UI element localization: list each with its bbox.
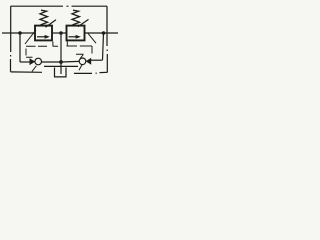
pilot dash line from V1 [26,42,58,58]
pilot dash line from V2 [67,41,93,58]
adjust arrow V1 [46,20,57,27]
wire B branch down [103,33,104,60]
enclosure bottom chain line [11,72,108,74]
pilot diagonal V2 [88,33,97,43]
check valve CV1 seat [30,58,36,65]
node center junction dot [59,31,63,35]
relief valve V2 body [67,26,85,41]
relief valve V2 flow arrow [69,36,77,38]
wire A branch down [19,33,21,62]
check valve CV1 line [20,61,30,63]
spring S1 [40,10,48,25]
node A junction dot [18,31,22,35]
enclosure right chain line [106,6,108,72]
check valve CV1 ball [35,58,42,65]
spring S2 [72,10,80,25]
pilot diagonal V1 [25,30,36,44]
node B junction dot [102,31,106,35]
port line B [85,32,118,34]
wire CV1 to center [42,61,62,63]
check valve CV2 line [61,60,79,63]
relief valve V1 body [35,26,52,41]
wire center vertical to tank [60,33,62,74]
enclosure top chain line [11,5,108,7]
adjust arrow V2 [78,19,89,26]
enclosure left chain line [10,6,12,72]
node tank junction dot [59,60,63,64]
drain diagonal CV1 [32,66,36,72]
check valve CV2 seat [86,58,92,65]
drain diagonal CV2 [79,65,82,71]
wire between valves [52,32,66,34]
port line A [2,32,35,34]
relief valve V1 flow arrow [37,36,45,38]
tank T [55,68,67,77]
tank top line [44,65,78,67]
wire CV2 to branch B [91,59,103,61]
check valve CV2 ball [79,58,86,65]
